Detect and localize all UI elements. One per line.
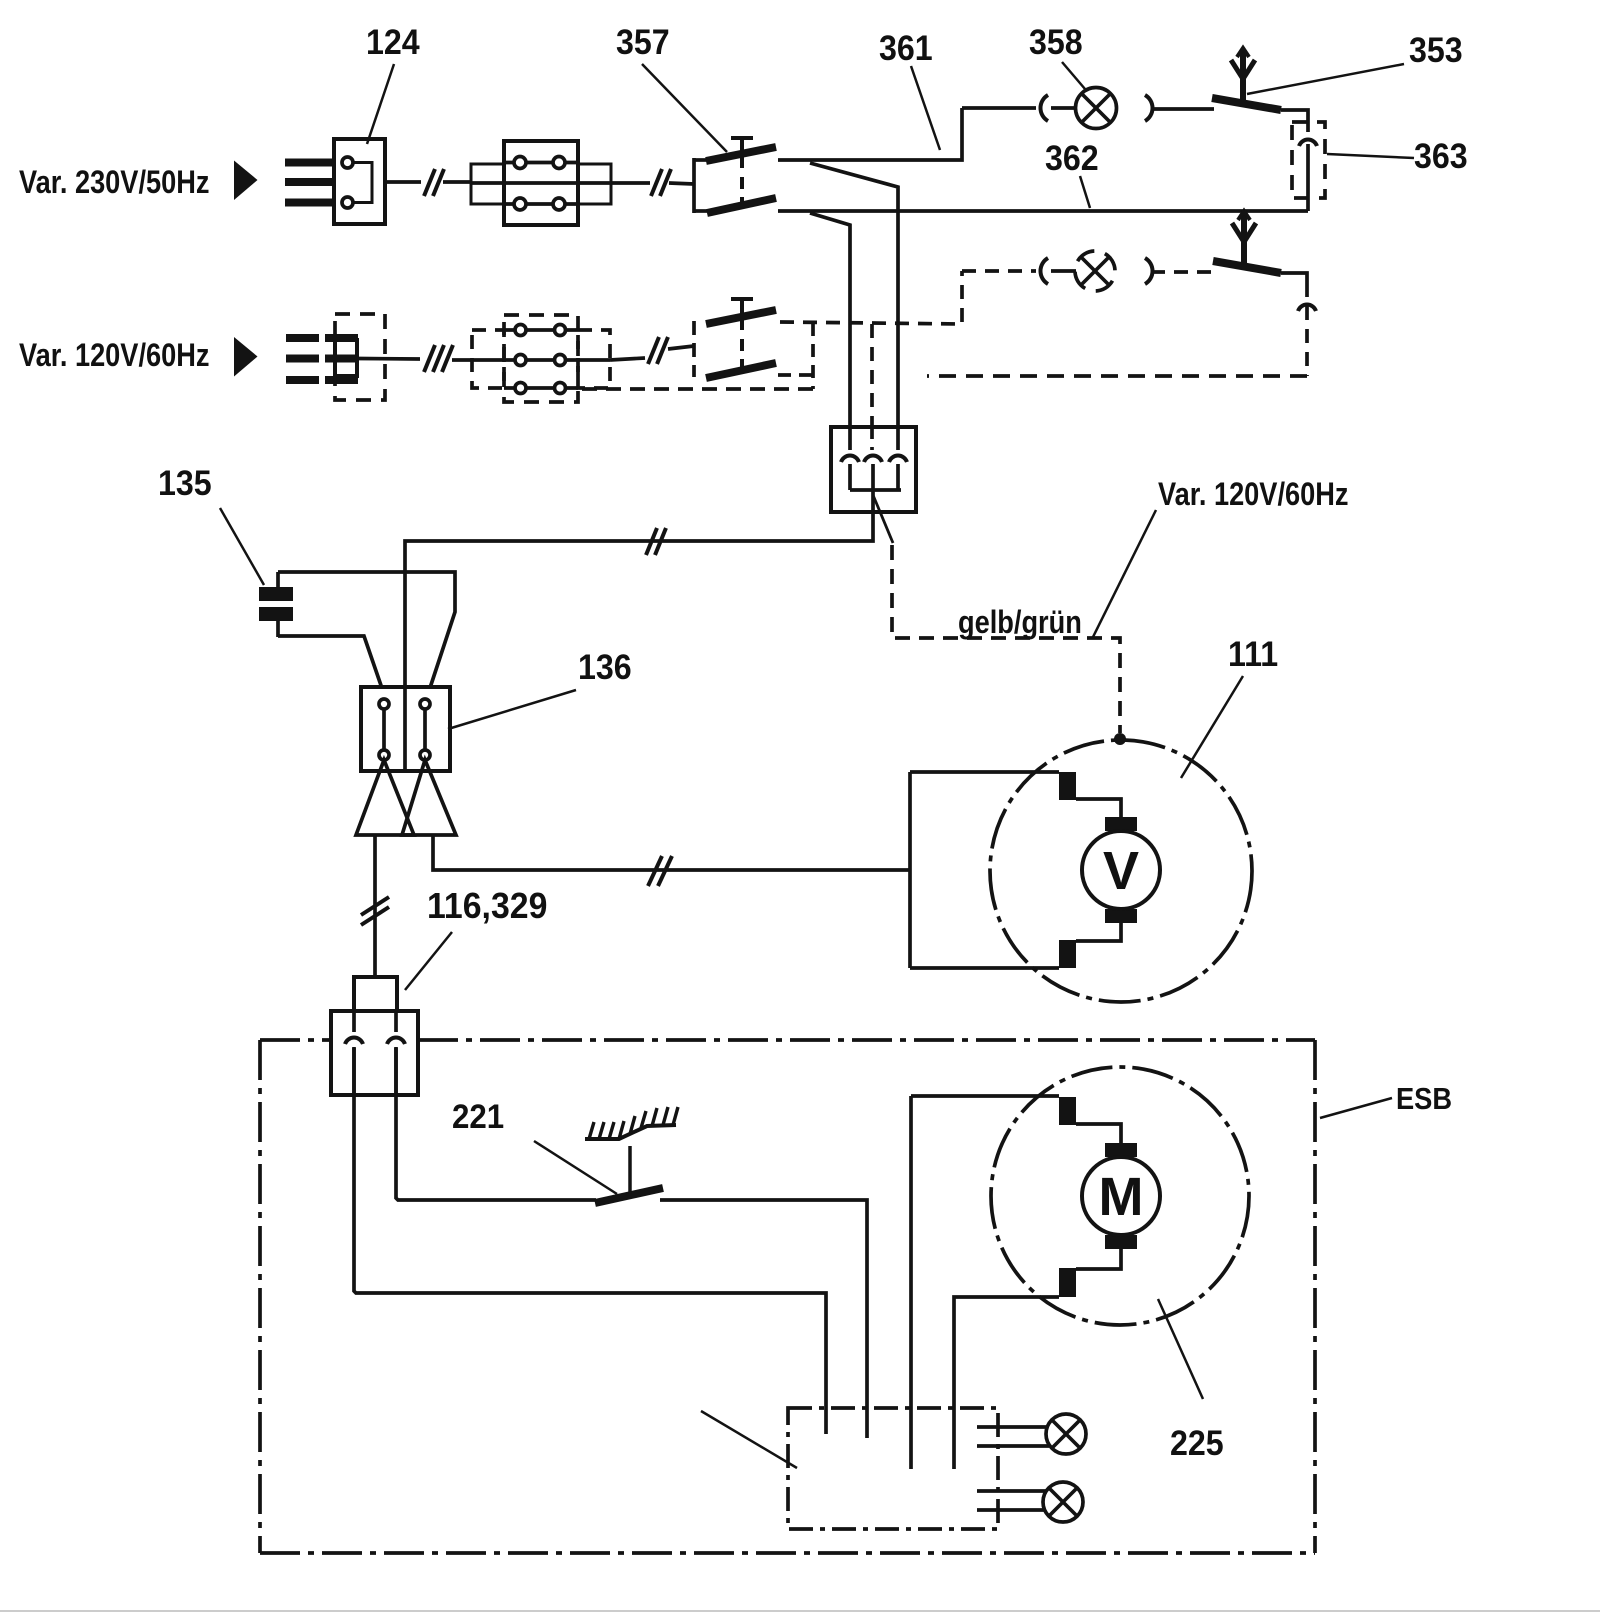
wire: [668, 346, 694, 349]
switch (lid switch, 120V contact): [1213, 211, 1281, 273]
lamp (drum light 1): [977, 1414, 1086, 1454]
svg-text:358: 358: [1029, 24, 1083, 63]
wire (third coupler row return): [582, 387, 813, 391]
label 357: [616, 24, 727, 152]
svg-text:136: 136: [578, 649, 632, 688]
wire: [611, 181, 650, 185]
pointer line (to bottom connector): [701, 1411, 797, 1468]
svg-text:ESB: ESB: [1396, 1082, 1452, 1116]
switch (mains switch, 120V contacts, dashed): [694, 299, 776, 378]
svg-text:353: 353: [1409, 32, 1463, 71]
connector 363: [1292, 122, 1325, 211]
lamp (120V, dashed): [1075, 251, 1115, 291]
coupler (230V): [471, 141, 611, 225]
lamp 358: [1076, 88, 1117, 129]
plug contacts (crossed triangles below 136): [356, 760, 456, 835]
generator 111 (V): [910, 772, 1160, 968]
svg-text:116,329: 116,329: [427, 886, 547, 926]
connector (middle 3-pin): [831, 427, 916, 543]
svg-text:M: M: [1099, 1167, 1144, 1227]
wire (jog to lamp 358): [962, 106, 1036, 110]
lamp socket contact (right): [1145, 95, 1153, 121]
wire: [610, 358, 645, 360]
ESB boundary (dash-dot frame): [260, 1040, 1315, 1553]
svg-text:363: 363: [1414, 138, 1468, 177]
switch 357 (mains switch, 230V contacts): [694, 138, 776, 213]
plug housing (120V, dashed): [335, 314, 385, 400]
wire (center pin to 136): [405, 512, 873, 687]
lamp socket contact (right): [1145, 258, 1153, 284]
wire (bottom pole stub): [778, 373, 813, 377]
svg-text:Var. 230V/50Hz: Var. 230V/50Hz: [19, 165, 209, 201]
wire (right triangle to 111 frame): [433, 835, 910, 870]
lamp (drum light 2): [977, 1482, 1083, 1522]
wire (353 output down to 363): [1281, 110, 1308, 132]
cable marker //: [648, 856, 672, 886]
connector 124: [334, 139, 385, 224]
plug contact block (120V): [335, 340, 357, 376]
cable marker //: [648, 337, 668, 364]
wire: [669, 183, 694, 184]
svg-text:gelb/grün: gelb/grün: [958, 605, 1082, 641]
svg-text:124: 124: [366, 24, 420, 63]
cable marker //: [646, 528, 666, 555]
switch 221 (thermal cut-out): [585, 1107, 678, 1203]
svg-text:357: 357: [616, 24, 670, 63]
label 135: [158, 465, 264, 585]
plug pins (120V): [286, 338, 359, 380]
svg-text:V: V: [1103, 841, 1139, 901]
wire (capacitor top to 136 right pin): [278, 572, 455, 697]
svg-text:362: 362: [1045, 140, 1099, 179]
motor 225 outer boundary (dash-dot circle): [991, 1067, 1249, 1325]
wire (left triangle down to 116,329): [373, 835, 377, 977]
label 353: [1247, 32, 1463, 94]
wire (feed to connector, top pole): [810, 163, 898, 450]
wire: [359, 357, 420, 361]
svg-text:361: 361: [879, 30, 933, 69]
wire (221 output to bottom connector): [660, 1200, 867, 1438]
node (junction dot on 111): [1114, 733, 1126, 745]
connector 116,329: [331, 977, 418, 1095]
wire (jog to 120V lamp): [962, 269, 1036, 273]
wire (branch down to third coupler row): [811, 323, 815, 389]
label 136: [448, 649, 632, 729]
wire gelb/gruen (dashed ground lead): [892, 545, 1120, 733]
cable marker //: [651, 169, 671, 196]
lamp socket contact (left): [1040, 258, 1048, 284]
scan edge artifact: [0, 1610, 1600, 1612]
wire (middle conductor through plug 124): [336, 180, 421, 184]
cable marker ///: [424, 345, 453, 372]
wire: [443, 180, 471, 184]
label 362: [1045, 140, 1099, 208]
cable marker //: [361, 897, 389, 925]
label 225: [1158, 1299, 1224, 1463]
coupler (120V, dashed): [472, 315, 610, 402]
connector (pin contact): [1298, 305, 1316, 311]
label Var. 120V/60Hz (right): [1093, 477, 1348, 637]
wire: [1051, 106, 1076, 110]
wire (feed to connector, bottom pole): [810, 213, 850, 450]
label 358: [1029, 24, 1085, 89]
label 124: [366, 24, 420, 144]
svg-text:Var. 120V/60Hz: Var. 120V/60Hz: [19, 338, 209, 374]
svg-text:111: 111: [1228, 636, 1278, 675]
label ESB: [1320, 1082, 1452, 1118]
connector 136: [361, 687, 450, 771]
label 111: [1181, 636, 1278, 778]
svg-text:221: 221: [452, 1097, 504, 1136]
wire: [1151, 270, 1214, 274]
wire (top pole output, dashed, to lamp circuit): [780, 271, 962, 324]
wire (to connector pin): [1281, 273, 1307, 297]
wire (dashed return to switch): [1305, 306, 1309, 376]
wire (capacitor bottom to 136 left pin): [278, 636, 385, 697]
wire (116,329 right pin to switch 221): [396, 1048, 596, 1200]
wire: [452, 358, 472, 362]
label 361: [879, 30, 940, 150]
label Var. 230V/50Hz: [19, 161, 258, 201]
plug 124 pins: [285, 163, 336, 203]
motor 225 (M): [911, 1096, 1160, 1469]
svg-text:225: 225: [1170, 1425, 1224, 1464]
wire (116,329 left pin to bottom connector): [354, 1048, 826, 1434]
wire (middle connector feed, dashed): [870, 324, 874, 450]
wire: [1151, 107, 1214, 111]
capacitor 135: [259, 572, 293, 637]
label Var. 120V/60Hz: [19, 337, 258, 377]
lamp socket contact (left): [1040, 95, 1048, 121]
wire 361 (top pole output, to lamp circuit): [778, 108, 962, 160]
switch 353 (lid switch): [1212, 48, 1281, 110]
svg-text:Var. 120V/60Hz: Var. 120V/60Hz: [1158, 477, 1348, 513]
motor 111 outer boundary (dash-dot circle): [990, 740, 1252, 1002]
cable marker //: [424, 169, 444, 196]
label 363: [1327, 138, 1468, 177]
wire: [1051, 269, 1076, 273]
label 221: [452, 1097, 617, 1194]
wire 362 (bottom pole output, return from 363): [778, 209, 1308, 213]
svg-text:135: 135: [158, 465, 212, 504]
label 116,329: [405, 886, 547, 990]
connector (bottom, dash-dot housing): [788, 1408, 998, 1529]
wire (long dashed return): [927, 374, 1307, 378]
